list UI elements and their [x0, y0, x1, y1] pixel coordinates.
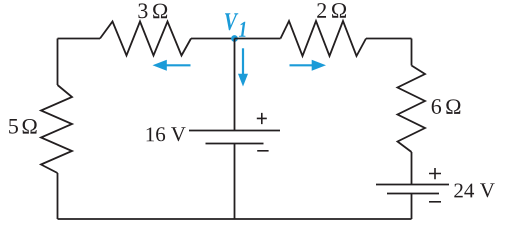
- wire from node V1 to 2ohm: [235, 38, 281, 40]
- wire bottom rail: [58, 218, 412, 220]
- wire from 3ohm to node V1: [191, 38, 235, 40]
- minus sign 16V: [257, 150, 268, 152]
- current arrow down (from node V1): [238, 48, 248, 86]
- current arrow left (under 3ohm): [153, 60, 191, 71]
- wire from 2ohm to top-right corner: [366, 38, 412, 40]
- current arrow right (toward 2ohm): [290, 60, 327, 71]
- resistor 5ohm zigzag: [41, 85, 72, 173]
- label 16 V: [147, 127, 186, 141]
- battery 24V negative plate: [387, 193, 439, 195]
- label 5 ohm: [9, 119, 37, 134]
- wire right rail upper: [411, 39, 413, 66]
- minus sign 24V: [429, 201, 441, 203]
- resistor 2ohm zigzag: [281, 21, 367, 56]
- resistor 3ohm zigzag: [100, 22, 191, 56]
- label 24 V: [454, 183, 494, 197]
- plus sign 24V: [429, 168, 441, 179]
- label 2 ohm: [317, 3, 346, 18]
- label 3 ohm: [138, 3, 167, 18]
- wire from 24V battery to bottom-right corner: [411, 194, 413, 220]
- wire center branch upper: [234, 39, 236, 131]
- label V1: [225, 13, 238, 30]
- wire from 6ohm to 24V battery: [411, 152, 413, 185]
- node V1 dot: [231, 35, 238, 42]
- resistor 6ohm zigzag: [398, 66, 426, 153]
- wire left rail lower: [57, 173, 59, 219]
- label 6 ohm: [432, 99, 461, 114]
- wire top-left horizontal segment: [58, 38, 101, 40]
- wire left rail upper: [57, 39, 59, 86]
- battery 16V positive plate: [189, 130, 280, 132]
- battery 24V positive plate: [376, 184, 449, 186]
- wire center branch lower: [234, 144, 236, 220]
- battery 16V negative plate: [206, 143, 264, 145]
- plus sign 16V: [257, 113, 267, 124]
